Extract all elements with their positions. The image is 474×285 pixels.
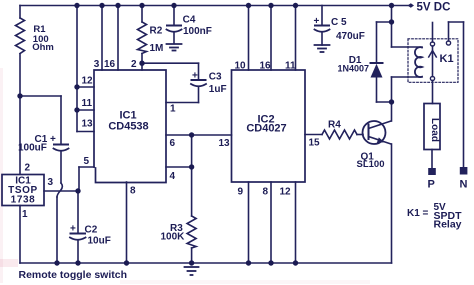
svg-text:R4: R4 [328,120,341,131]
wire NO contact to N [448,22,450,41]
svg-text:13: 13 [219,138,231,149]
node relay bottom contact [430,76,434,80]
svg-text:470uF: 470uF [336,31,365,42]
resistor R3 [187,216,196,248]
wire collector up [391,102,393,121]
svg-text:1: 1 [22,209,28,220]
junction dots misc [17,93,22,98]
resistor R4 [322,130,357,139]
svg-text:5V DC: 5V DC [417,2,451,14]
Load box [424,104,440,150]
svg-text:100uF: 100uF [18,143,47,154]
ground under R3 [185,266,199,268]
op-amp IC2 CD4027 box [232,70,306,182]
svg-text:CD4538: CD4538 [108,121,148,133]
wire pin12 [77,86,94,88]
wire C4 to ground [173,32,175,44]
wire C1 bottom with crossover jog [60,151,62,183]
svg-text:100K: 100K [161,232,186,243]
wire C4 top [173,6,175,26]
wire IC1 pin16 [117,6,119,71]
svg-text:C3: C3 [209,72,222,83]
inductor relay coil K1 [415,47,422,77]
resistor R2 [138,22,147,54]
svg-text:2: 2 [25,163,31,174]
wire TSOP pin1 to ground rail [19,206,21,264]
svg-text:N: N [460,179,468,191]
wire C2 branch [77,191,79,233]
svg-text:+: + [192,71,198,82]
wire relay arm top [432,23,434,43]
svg-text:Relay: Relay [434,219,462,231]
wire C5 top [321,6,323,26]
wire IC2 pin15 to R4 [305,134,322,136]
wire emitter down [391,144,393,263]
svg-text:3: 3 [94,59,100,70]
wire R3 bottom [191,248,193,263]
svg-text:9: 9 [238,187,244,198]
wire R3 top [191,135,193,216]
relay arm arrow [429,51,437,58]
wire D1 top branch [377,21,392,23]
svg-text:Load: Load [429,118,440,142]
svg-text:1M: 1M [150,43,164,54]
svg-text:13: 13 [82,119,94,130]
svg-text:11: 11 [82,98,93,109]
capacitor C1 [54,144,68,146]
svg-text:16: 16 [260,61,272,72]
wire IC2 pin12 [295,182,297,263]
wire C2 to ground rail [77,240,79,263]
wire pin5 net [78,167,80,191]
wire relay common to Load [432,81,434,104]
junction dots bottom rail [54,260,59,265]
svg-text:12: 12 [280,187,292,198]
wire bottom ground rail [20,262,392,264]
svg-text:12: 12 [82,76,94,87]
svg-text:8: 8 [130,186,136,197]
wire R2 top [141,6,143,23]
node relay NO contact [446,41,450,45]
terminal P [428,168,436,175]
wire R4 to base [357,134,363,136]
svg-text:P: P [428,179,435,191]
wire left vertical R1 to TSOP pin2 [19,6,21,19]
svg-text:K1 =: K1 = [407,208,429,219]
wire pin13 [77,131,94,133]
svg-text:100nF: 100nF [183,26,212,37]
svg-text:SL100: SL100 [357,159,385,170]
svg-text:5: 5 [84,156,90,167]
svg-text:Remote toggle switch: Remote toggle switch [19,269,128,281]
svg-text:3: 3 [48,177,54,188]
diode D1 [371,62,383,64]
svg-text:C4: C4 [183,15,196,26]
svg-text:CD4027: CD4027 [246,123,286,135]
transistor Q1 [363,121,386,144]
svg-text:8: 8 [263,187,269,198]
svg-text:1: 1 [170,104,176,115]
capacitor C5 [315,25,329,27]
svg-text:K1: K1 [440,53,454,65]
svg-text:11: 11 [285,61,296,72]
svg-text:+: + [70,224,76,235]
svg-text:+: + [50,134,56,145]
wire IC1 pin4 [166,166,192,168]
wire IC1 pin8 [126,182,128,263]
svg-text:C2: C2 [85,225,98,236]
wire C3 to pin1 [198,87,200,103]
wire pin2 to C3 [142,62,199,64]
capacitor C3 [192,79,206,81]
wire IC2 pin9 [248,182,250,263]
ground under C5 [315,44,330,46]
node relay common contact [430,42,434,46]
wire 5V feed down [391,6,393,48]
wire IC2 pin16 [270,6,272,71]
wire bus pins 12 11 13 [76,6,78,132]
wire C5 to ground [321,32,323,45]
op-amp IC1 CD4538 box [94,70,166,183]
svg-text:4: 4 [170,171,176,182]
svg-text:+: + [314,16,320,27]
wire R2 bottom to pin2 [141,54,143,71]
svg-text:R2: R2 [150,26,163,37]
svg-text:15: 15 [309,138,321,149]
wire relay arm [432,46,434,77]
svg-text:6: 6 [170,138,176,149]
wire C1 top branch [20,95,61,97]
svg-text:Ohm: Ohm [32,42,54,53]
wire coil bottom lead [392,76,423,78]
wire pin11 [77,109,94,111]
relay K1 dashed box [408,39,458,83]
wire Load to P [431,150,433,169]
wire IC2 pin11 [295,6,297,71]
node 5V DC terminal diamond [408,3,415,8]
capacitor C4 [167,25,181,27]
svg-text:1uF: 1uF [209,84,227,95]
ground under C4 [167,43,182,45]
IC TSOP1738 box [2,175,44,206]
svg-text:10uF: 10uF [88,236,111,247]
terminal N [460,167,468,175]
svg-text:16: 16 [104,59,116,70]
svg-text:1738: 1738 [11,195,36,206]
wire coil top lead [392,46,423,48]
svg-text:2: 2 [131,59,137,70]
svg-text:1N4007: 1N4007 [338,64,370,74]
wire top 5V rail [20,5,408,7]
wire IC2 pin8 [270,182,272,263]
wire IC1 pin6 to IC2 pin13 [166,134,232,136]
resistor R1 [16,18,25,54]
wire TSOP pin3 [44,190,78,192]
junction dots top rail [74,3,79,8]
svg-text:10: 10 [235,61,247,72]
capacitor C2 [71,233,86,235]
wire IC1 pin3 [101,6,103,71]
wire IC2 pin10 [248,6,250,71]
svg-text:C 5: C 5 [331,17,347,28]
